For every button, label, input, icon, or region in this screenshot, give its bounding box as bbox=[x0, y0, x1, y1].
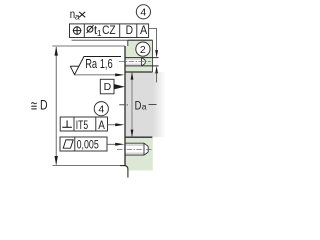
axial roller bottom (white body) bbox=[125, 143, 148, 155]
raceway bottom line extended bbox=[125, 65, 159, 67]
roughness leader line bbox=[75, 74, 119, 76]
datum triangle bbox=[114, 84, 125, 89]
centerline dash left bbox=[119, 104, 124, 106]
svg-text:0,005: 0,005 bbox=[77, 138, 99, 152]
position symbol bbox=[73, 26, 82, 35]
roller shading bands bbox=[125, 58, 142, 60]
svg-text:D: D bbox=[126, 23, 134, 37]
svg-text:CZ: CZ bbox=[102, 23, 116, 37]
flatness leader arrow bbox=[115, 143, 124, 146]
roller top centerline bbox=[119, 61, 151, 63]
svg-text:A: A bbox=[98, 118, 105, 132]
label approx D symbol bbox=[31, 103, 36, 109]
leader from frame to roller dimension bbox=[149, 29, 157, 52]
perpendicularity frame bbox=[60, 117, 107, 131]
centerline dot bbox=[127, 104, 128, 106]
housing notch outline bbox=[127, 40, 129, 46]
shaft section bottom (green fill) bbox=[124, 137, 153, 170]
svg-text:A: A bbox=[140, 23, 147, 37]
svg-text:D: D bbox=[40, 98, 48, 114]
gray bottom boundary line bbox=[125, 136, 152, 138]
IT5 leader bbox=[108, 124, 117, 126]
datum feature box D bbox=[100, 79, 114, 94]
arrow down to roller top line bbox=[155, 50, 158, 58]
roughness leader arrow bbox=[115, 73, 124, 76]
bore section (gray fill with right fade) bbox=[125, 72, 166, 137]
svg-text:a: a bbox=[75, 11, 80, 21]
raceway wall vertical line bbox=[124, 46, 126, 166]
housing outline right edge bbox=[152, 40, 154, 72]
perpendicularity symbol bbox=[62, 120, 72, 127]
circle label 4 top bbox=[136, 5, 150, 19]
extension line step surface bbox=[52, 45, 125, 47]
shaft shoulder extension line bbox=[53, 165, 121, 167]
green band bottom boundary bbox=[125, 71, 153, 73]
Da arrow up bbox=[131, 72, 134, 80]
position tolerance frame bbox=[70, 24, 149, 38]
svg-text:D: D bbox=[104, 81, 112, 93]
arrow up at step line bbox=[55, 46, 58, 55]
svg-text:Ra 1,6: Ra 1,6 bbox=[85, 57, 113, 71]
shaft shoulder outline with fillet bbox=[120, 166, 128, 178]
circle label 4 lower bbox=[94, 102, 108, 116]
surface roughness symbol bbox=[70, 57, 121, 75]
raceway top line extended bbox=[125, 57, 159, 59]
dimension congruent-D vertical line bbox=[55, 47, 57, 165]
dimension Da vertical line bbox=[131, 72, 133, 137]
circle label 2 bbox=[136, 42, 150, 56]
arrow up to roller bottom line bbox=[155, 66, 158, 74]
flatness frame bbox=[60, 137, 107, 151]
tail below arrow bbox=[156, 72, 158, 83]
flatness leader bbox=[107, 143, 116, 145]
svg-text:4: 4 bbox=[98, 103, 104, 115]
roller bottom centerline bbox=[117, 148, 152, 150]
housing section top (green fill) bbox=[125, 40, 153, 72]
diameter symbol bbox=[87, 25, 94, 33]
arrow down at shoulder line bbox=[55, 156, 58, 165]
extension line top surface bbox=[72, 39, 128, 41]
flatness symbol bbox=[63, 140, 73, 148]
needle roller top (white body) bbox=[125, 58, 145, 66]
Da arrow down bbox=[131, 130, 134, 138]
centerline dash right bbox=[149, 104, 157, 106]
svg-text:a: a bbox=[142, 102, 147, 112]
svg-text:2: 2 bbox=[140, 44, 146, 56]
roller shading bands bbox=[125, 144, 144, 146]
IT5 leader arrow bbox=[115, 123, 124, 126]
housing outline top edge bbox=[128, 39, 153, 41]
svg-text:IT5: IT5 bbox=[76, 118, 89, 132]
svg-text:4: 4 bbox=[140, 6, 146, 18]
svg-text:D: D bbox=[135, 99, 142, 113]
